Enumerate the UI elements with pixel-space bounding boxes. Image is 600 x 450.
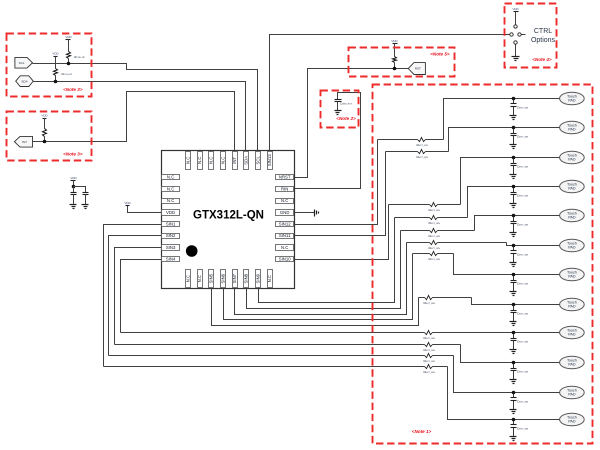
svg-text:PAD: PAD	[568, 158, 576, 162]
svg-text:VDD: VDD	[512, 7, 519, 11]
svg-text:SIN9: SIN9	[255, 273, 260, 283]
svg-text:SIN10: SIN10	[279, 257, 292, 262]
svg-text:RST: RST	[415, 67, 421, 71]
svg-text:PAD: PAD	[568, 305, 576, 309]
svg-text:SDA: SDA	[21, 79, 27, 83]
svg-text:VDD: VDD	[52, 52, 59, 56]
svg-text:VDD: VDD	[70, 176, 77, 180]
svg-text:N.C: N.C	[185, 275, 190, 282]
svg-text:N.C: N.C	[220, 157, 225, 164]
svg-text:PAD: PAD	[568, 275, 576, 279]
svg-text:PAD: PAD	[568, 333, 576, 337]
svg-text:N.C: N.C	[167, 175, 174, 180]
svg-text:PAD: PAD	[568, 99, 576, 103]
svg-text:PAD: PAD	[568, 187, 576, 191]
svg-text:SIN8: SIN8	[244, 273, 249, 283]
svg-text:PAD: PAD	[568, 216, 576, 220]
svg-text:Options: Options	[531, 37, 556, 44]
svg-text:N.C: N.C	[197, 157, 202, 164]
svg-text:SIN3: SIN3	[166, 245, 176, 250]
svg-text:VDD: VDD	[166, 210, 175, 215]
svg-text:<Note 1>: <Note 1>	[412, 429, 432, 434]
svg-text:<Note 3>: <Note 3>	[63, 151, 83, 156]
svg-text:SIN12: SIN12	[279, 222, 292, 227]
svg-text:<Note 3>: <Note 3>	[63, 87, 83, 92]
svg-text:N.C: N.C	[281, 198, 288, 203]
svg-text:VDD: VDD	[41, 113, 48, 117]
svg-text:<Note 2>: <Note 2>	[336, 116, 356, 121]
svg-text:SIN1: SIN1	[166, 222, 176, 227]
svg-text:N.C: N.C	[209, 157, 214, 164]
svg-text:SIN5: SIN5	[209, 273, 214, 283]
svg-text:INT: INT	[232, 156, 237, 163]
svg-text:<Note 5>: <Note 5>	[430, 52, 450, 57]
svg-text:N.C: N.C	[267, 275, 272, 282]
svg-text:SIN13: SIN13	[267, 154, 272, 167]
svg-text:VDD: VDD	[65, 35, 72, 39]
svg-text:N.C: N.C	[197, 275, 202, 282]
svg-text:N.C: N.C	[167, 186, 174, 191]
svg-text:PAD: PAD	[568, 393, 576, 397]
svg-text:N.C: N.C	[167, 198, 174, 203]
svg-text:PAD: PAD	[568, 420, 576, 424]
svg-text:SIN7: SIN7	[232, 273, 237, 283]
svg-text:SIN6: SIN6	[220, 273, 225, 283]
svg-text:RIN: RIN	[281, 186, 288, 191]
svg-text:SCL: SCL	[255, 156, 260, 165]
svg-text:NRST: NRST	[279, 175, 291, 180]
svg-text:SIN2: SIN2	[166, 233, 176, 238]
svg-text:VDD: VDD	[391, 39, 398, 43]
svg-text:SCL: SCL	[19, 61, 25, 65]
svg-text:GND: GND	[280, 210, 290, 215]
svg-text:SIN4: SIN4	[166, 257, 176, 262]
svg-text:PAD: PAD	[568, 363, 576, 367]
svg-text:VDD: VDD	[124, 201, 131, 205]
svg-text:PAD: PAD	[568, 128, 576, 132]
svg-text:PAD: PAD	[568, 246, 576, 250]
svg-text:N.C: N.C	[185, 157, 190, 164]
svg-text:GTX312L-QN: GTX312L-QN	[193, 209, 264, 221]
svg-text:SIN11: SIN11	[279, 233, 291, 238]
svg-text:CTRL: CTRL	[534, 28, 552, 35]
svg-text:INT: INT	[22, 140, 27, 144]
svg-text:N.C: N.C	[281, 245, 288, 250]
svg-text:SDA: SDA	[244, 156, 249, 165]
svg-text:<Note 4>: <Note 4>	[532, 57, 552, 62]
